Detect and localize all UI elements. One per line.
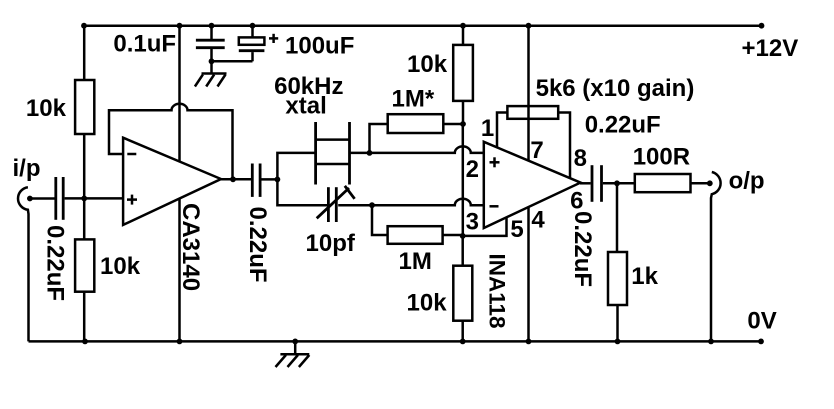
svg-text:10k: 10k [26,95,67,122]
svg-text:0V: 0V [747,307,776,334]
svg-text:INA118: INA118 [485,254,510,329]
svg-text:10k: 10k [407,290,448,317]
svg-text:1M: 1M [399,248,432,275]
svg-text:100R: 100R [633,144,690,171]
svg-text:5k6 (x10 gain): 5k6 (x10 gain) [536,75,695,102]
svg-text:10k: 10k [100,253,141,280]
svg-text:0.22uF: 0.22uF [585,112,661,139]
svg-text:10k: 10k [407,51,448,78]
svg-text:xtal: xtal [285,93,326,120]
svg-text:0.1uF: 0.1uF [113,30,176,57]
svg-text:10pf: 10pf [306,230,356,257]
svg-text:o/p: o/p [729,168,765,195]
svg-text:5: 5 [510,216,523,243]
svg-text:7: 7 [530,137,543,164]
svg-text:4: 4 [531,207,545,234]
svg-text:1: 1 [481,115,494,142]
svg-text:100uF: 100uF [285,33,354,60]
svg-text:0.22uF: 0.22uF [569,211,596,287]
svg-text:CA3140: CA3140 [177,203,204,291]
svg-text:1M*: 1M* [392,86,435,113]
svg-text:1k: 1k [631,263,658,290]
svg-text:8: 8 [574,145,587,172]
svg-text:0.22uF: 0.22uF [244,207,271,283]
svg-text:2: 2 [466,156,479,183]
svg-text:i/p: i/p [13,155,41,182]
svg-text:0.22uF: 0.22uF [42,225,69,301]
svg-text:3: 3 [466,209,479,236]
svg-text:+12V: +12V [742,35,799,62]
